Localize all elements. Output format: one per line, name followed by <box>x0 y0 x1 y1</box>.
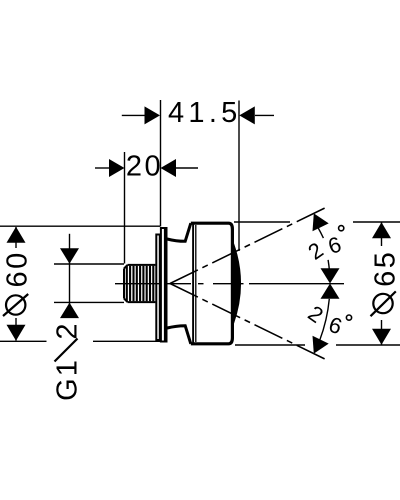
extension line head front <box>238 101 240 252</box>
thread hatch lines <box>127 266 154 302</box>
dimension dia 60 extension top <box>0 225 160 227</box>
flange outer plate <box>160 227 168 343</box>
svg-text:65: 65 <box>370 250 400 287</box>
head front dome crescent <box>233 246 240 321</box>
centerline horizontal <box>115 283 344 285</box>
dimension dia 60 extension bottom <box>0 340 160 342</box>
angle arrow lower at diagonal <box>313 336 329 354</box>
label 26 deg lower <box>304 300 352 339</box>
dimension 41.5 <box>122 97 274 129</box>
body neck top profile <box>167 223 191 241</box>
label dia 60 text <box>2 250 34 316</box>
dimension dia 65 line and arrows <box>372 222 391 344</box>
dimension dia 65 extension bottom <box>235 344 400 346</box>
dimension G1/2 extension lines <box>54 264 124 302</box>
extension line thread start <box>124 152 126 264</box>
angle dimension arc lower <box>320 299 330 340</box>
dimension 20 <box>95 150 198 182</box>
angle dimension arc upper <box>318 227 330 273</box>
flange inner plate <box>156 235 160 341</box>
head outline <box>191 223 233 344</box>
svg-text:20: 20 <box>126 150 163 182</box>
svg-text:60: 60 <box>2 250 34 287</box>
thread pipe G1/2 outline <box>124 265 155 302</box>
extension line flange back plane <box>160 100 162 227</box>
body neck bottom profile <box>167 326 191 344</box>
dimension dia 65 extension top <box>234 221 400 223</box>
dimension dia 60 line and arrows <box>7 227 26 341</box>
centerline upper diagonal 26 deg <box>170 207 327 283</box>
svg-text:41.5: 41.5 <box>168 97 242 129</box>
angle arrows at centerline bowtie <box>321 268 340 298</box>
dimension G1/2 line and arrows <box>60 234 79 318</box>
angle arrow upper at diagonal <box>313 213 329 231</box>
svg-text:2: 2 <box>52 323 84 339</box>
label G1/2 text <box>52 323 84 400</box>
svg-text:G1: G1 <box>52 358 84 401</box>
centerline lower diagonal 26 deg <box>170 284 327 360</box>
head front dome arc outer <box>233 243 240 324</box>
label dia 65 text <box>370 250 400 317</box>
label 26 deg upper <box>303 226 344 265</box>
head back face lines <box>193 224 196 343</box>
